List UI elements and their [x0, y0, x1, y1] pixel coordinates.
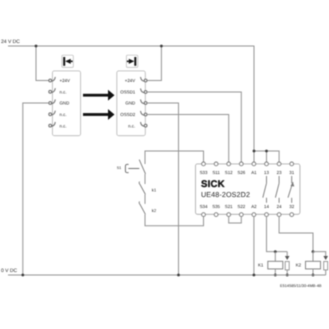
- receiver pin GND: [141, 99, 148, 104]
- svg-text:+24V: +24V: [125, 78, 135, 83]
- junction dot on rail at x161: [160, 45, 163, 48]
- sender pin +24V: [49, 77, 56, 82]
- svg-text:24 V DC: 24 V DC: [1, 39, 20, 45]
- relay contact 31-32 (NC): [288, 176, 293, 203]
- svg-text:S21: S21: [225, 204, 233, 209]
- svg-text:32: 32: [289, 204, 294, 209]
- junction dot on rail at x36: [35, 45, 38, 48]
- wire: chain bottom to S34: [145, 214, 204, 225]
- receiver pin OSSD1: [141, 88, 148, 93]
- wire between k1 and k2: [144, 195, 146, 204]
- svg-text:GND: GND: [125, 101, 135, 106]
- junction dot sender GND on rail: [21, 274, 24, 277]
- svg-text:n.c.: n.c.: [60, 90, 67, 95]
- contact k2: [139, 201, 145, 214]
- relay contact 23-24: [275, 176, 279, 203]
- sender box: [52, 71, 80, 136]
- junction dot on rail under K2: [312, 274, 315, 277]
- svg-text:S1: S1: [117, 166, 121, 170]
- wire: rail to receiver +24V: [147, 46, 161, 81]
- svg-text:A1: A1: [251, 170, 257, 175]
- receiver pin +24V: [141, 77, 148, 82]
- svg-text:K2: K2: [296, 262, 302, 267]
- junction dots on rail under K1: [274, 274, 277, 277]
- wire between S1 and k1: [144, 174, 146, 184]
- svg-text:A2: A2: [251, 204, 257, 209]
- svg-text:OSSD1: OSSD1: [120, 90, 135, 95]
- light beam arrow 1: [83, 90, 115, 101]
- wire: rail down to A1: [253, 46, 255, 162]
- reset contact S1 blade: [139, 160, 145, 174]
- contact k1: [139, 182, 145, 195]
- wire: OSSD1 to terminal S26: [147, 92, 241, 162]
- relay contact 13-14: [263, 176, 267, 203]
- branch wire to contacts 13 and 23: [254, 151, 279, 162]
- bottom terminal labels: [200, 204, 295, 209]
- svg-text:n.c.: n.c.: [60, 112, 67, 117]
- 0 V DC rail: [8, 274, 326, 276]
- svg-text:31: 31: [289, 170, 294, 175]
- wire: sender GND to 0V rail: [23, 103, 49, 275]
- top terminal labels: [200, 170, 295, 175]
- svg-text:GND: GND: [60, 101, 70, 106]
- svg-text:k2: k2: [152, 208, 157, 213]
- svg-text:14: 14: [264, 204, 269, 209]
- junction dot receiver GND on rail: [177, 274, 180, 277]
- svg-text:S11: S11: [212, 170, 220, 175]
- junction dot 13 feed: [265, 150, 268, 153]
- wire: 14 to K1: [267, 217, 288, 252]
- wire down to terminal 13: [266, 151, 268, 162]
- contactor coil K1: [274, 252, 276, 262]
- svg-text:13: 13: [264, 170, 269, 175]
- receiver icon: [126, 55, 137, 67]
- svg-text:SICK: SICK: [201, 179, 225, 190]
- svg-text:E514585/11/30-4MB-4B: E514585/11/30-4MB-4B: [280, 283, 322, 288]
- svg-text:24: 24: [277, 204, 282, 209]
- svg-text:n.c.: n.c.: [128, 123, 135, 128]
- sender pin GND: [49, 99, 56, 104]
- sender pin n.c. (2): [49, 88, 56, 93]
- suppressor for K1: [286, 252, 288, 256]
- svg-text:S22: S22: [237, 204, 245, 209]
- svg-text:UE48-2OS2D2: UE48-2OS2D2: [201, 190, 250, 199]
- svg-text:+24V: +24V: [60, 78, 70, 83]
- wire: receiver GND to 0V rail: [147, 103, 179, 275]
- receiver box: [117, 71, 146, 136]
- svg-text:n.c.: n.c.: [60, 123, 67, 128]
- light beam arrow 2: [83, 109, 115, 120]
- wire: A2 to 0V rail: [253, 217, 255, 275]
- wire: reset chain top to S33: [145, 151, 204, 164]
- jumper S21-S22: [229, 217, 242, 223]
- relay box UE48: [196, 164, 300, 214]
- receiver pin n.c.: [141, 122, 148, 127]
- junction dot K1 coil feed: [274, 250, 277, 253]
- wire: OSSD2 to terminal S12: [147, 115, 229, 162]
- svg-text:S34: S34: [200, 204, 208, 209]
- junction dot A1 feed: [253, 150, 256, 153]
- contactor coil K2: [312, 252, 314, 262]
- suppressor for K2: [313, 252, 326, 256]
- 24 V DC supply rail: [8, 45, 254, 47]
- sender pin n.c. (4): [49, 111, 56, 116]
- svg-text:23: 23: [277, 170, 282, 175]
- svg-text:S33: S33: [200, 170, 208, 175]
- bottom terminal circles: [202, 213, 294, 217]
- top terminal circles: [202, 162, 294, 166]
- svg-text:0 V DC: 0 V DC: [1, 268, 18, 274]
- junction dot A2 on rail: [253, 274, 256, 277]
- receiver pin OSSD2: [141, 111, 148, 116]
- NC contact arrow head: [291, 182, 295, 187]
- svg-text:OSSD2: OSSD2: [120, 112, 135, 117]
- sender pin n.c. (5): [49, 122, 56, 127]
- svg-text:S12: S12: [225, 170, 233, 175]
- wire: 24 to K2: [279, 217, 313, 252]
- sender icon: [62, 55, 73, 67]
- svg-text:S26: S26: [237, 170, 245, 175]
- junction dot K2 feed: [312, 250, 315, 253]
- svg-text:k1: k1: [152, 188, 157, 193]
- reset button actuator: [125, 164, 139, 172]
- svg-text:K1: K1: [258, 262, 264, 267]
- wire: rail to sender +24V: [36, 46, 49, 81]
- svg-text:S35: S35: [212, 204, 220, 209]
